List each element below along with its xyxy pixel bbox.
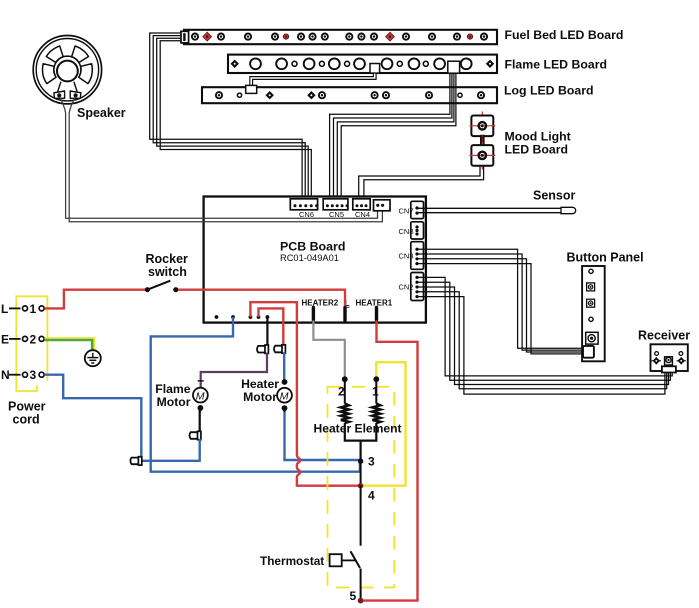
rocker switch	[145, 281, 179, 293]
flame board bundle connector	[448, 61, 460, 73]
svg-text:cord: cord	[13, 413, 40, 427]
Heater Motor label	[241, 377, 279, 404]
Mood Light LED board 2	[469, 142, 495, 170]
svg-text:CN7: CN7	[399, 206, 414, 215]
connector CN7	[411, 201, 424, 218]
svg-text:2: 2	[30, 332, 37, 346]
blue wire plug to heater motor and node 3	[284, 352, 360, 460]
svg-text:CN4: CN4	[355, 210, 370, 219]
svg-text:CN5: CN5	[329, 210, 344, 219]
svg-text:1: 1	[30, 302, 37, 316]
svg-text:Button Panel: Button Panel	[567, 251, 644, 265]
svg-text:E: E	[1, 332, 9, 346]
svg-text:Flame: Flame	[155, 382, 190, 396]
connector CN4	[353, 199, 370, 210]
svg-text:switch: switch	[148, 265, 187, 279]
heater element pin 2 node	[342, 376, 348, 382]
connector CN6	[290, 199, 318, 210]
connector CN2	[411, 273, 424, 301]
node 5	[358, 598, 364, 604]
svg-text:N: N	[1, 368, 10, 382]
Flame LED Board	[228, 55, 497, 73]
inline plug below flame motor	[190, 431, 201, 439]
svg-text:Heater: Heater	[241, 377, 279, 391]
HEATER1 pin	[375, 308, 378, 321]
black wire PCB pin to flame motor plug	[266, 317, 268, 346]
wires CN2 to receiver	[417, 277, 672, 394]
heater element pin 1 node	[373, 376, 379, 382]
svg-text:Flame LED Board: Flame LED Board	[505, 58, 608, 72]
PCB bottom pins	[215, 315, 270, 319]
live red wire rocker to PCB L pin	[178, 290, 345, 306]
heater motor M2	[277, 379, 292, 413]
PCB Board	[204, 197, 426, 323]
Sensor probe	[561, 207, 576, 213]
L pin	[343, 308, 346, 321]
svg-text:CN6: CN6	[299, 210, 314, 219]
red wire PCB pin to heater motor plug	[259, 308, 284, 345]
svg-text:M: M	[280, 390, 289, 402]
connector CN3	[411, 242, 424, 270]
svg-text:3: 3	[368, 455, 375, 469]
flame board small connector (to log board)	[370, 64, 380, 74]
svg-text:M: M	[196, 390, 205, 402]
red wire HEATER1 pin to node 5	[363, 321, 418, 601]
flame motor M1	[193, 381, 208, 413]
yellow wire node 4 to heater element pin 1	[363, 362, 406, 486]
red wire PCB pin to node 4 with wire hops	[250, 302, 358, 486]
svg-text:Thermostat: Thermostat	[260, 554, 324, 568]
Speaker	[33, 35, 101, 103]
Rocker switch label	[146, 252, 189, 279]
svg-text:PCB Board: PCB Board	[280, 240, 345, 254]
svg-text:CN2: CN2	[399, 283, 414, 292]
live red wire L to rocker switch	[44, 290, 147, 309]
gray wire HEATER2 pin to heater element pin 2	[313, 321, 344, 378]
svg-text:Mood Light: Mood Light	[505, 130, 571, 144]
inline plug on flame motor feed	[257, 345, 268, 353]
connector CN5	[323, 199, 348, 210]
svg-text:Motor: Motor	[157, 395, 191, 409]
blue wire PCB pin to node 3	[151, 317, 360, 472]
svg-text:Rocker: Rocker	[146, 252, 189, 266]
log board top connector	[246, 85, 257, 93]
power cord yellow outline	[16, 296, 47, 391]
heater element coils and wiring	[341, 379, 380, 459]
svg-text:L: L	[1, 302, 8, 316]
blue wire flame motor plug down to neutral	[198, 439, 200, 462]
Receiver	[651, 344, 688, 371]
terminal E	[9, 336, 44, 341]
Power cord label	[8, 400, 46, 427]
fuel bed board left connector	[181, 31, 189, 43]
svg-text:HEATER2: HEATER2	[302, 299, 339, 308]
svg-text:Speaker: Speaker	[77, 106, 126, 120]
purple wire plug to flame motor	[201, 353, 267, 388]
Flame Motor label	[155, 382, 190, 409]
thermostat	[330, 551, 361, 600]
ground symbol	[85, 350, 101, 366]
wires CN3 to button panel	[417, 249, 583, 354]
svg-text:LED Board: LED Board	[505, 143, 569, 157]
svg-text:Heater Element: Heater Element	[314, 422, 402, 436]
PCB board label	[280, 240, 345, 264]
heater assembly yellow dashed boundary	[328, 387, 395, 588]
speaker wires to PCB connector	[60, 97, 383, 222]
Sensor wires	[417, 208, 561, 212]
mood light connecting wire	[480, 135, 485, 146]
node 4	[358, 483, 363, 488]
svg-text:5: 5	[350, 589, 357, 603]
svg-text:Motor: Motor	[243, 390, 277, 404]
Fuel Bed LED Board	[184, 30, 497, 44]
svg-text:CN3: CN3	[399, 252, 414, 261]
svg-text:Fuel Bed LED Board: Fuel Bed LED Board	[505, 28, 624, 42]
svg-text:Receiver: Receiver	[638, 329, 690, 343]
svg-text:Power: Power	[8, 400, 46, 414]
wire bundle flame board to CN5	[330, 74, 456, 200]
Mood Light LED board 1	[469, 112, 495, 141]
svg-text:HEATER1: HEATER1	[356, 299, 393, 308]
wire node 3 to node 4	[360, 461, 362, 486]
svg-text:Sensor: Sensor	[533, 189, 576, 203]
Button Panel	[582, 266, 605, 361]
connector CN8	[411, 222, 424, 239]
svg-text:4: 4	[368, 489, 375, 503]
button panel wire connector	[583, 346, 594, 358]
terminal N	[9, 372, 44, 377]
neutral blue wire N to flame motor return	[44, 375, 199, 461]
wires mood light boards to CN4	[359, 166, 484, 199]
terminal L	[9, 306, 44, 311]
svg-text:Log LED Board: Log LED Board	[504, 84, 594, 98]
HEATER2 pin	[312, 308, 315, 321]
node 3	[358, 459, 363, 464]
svg-text:CN8: CN8	[399, 227, 414, 236]
svg-text:RC01-049A01: RC01-049A01	[280, 253, 339, 263]
wire flame board connector to log board connector	[251, 74, 375, 86]
earth wire E to ground	[44, 338, 94, 350]
svg-text:3: 3	[30, 368, 37, 382]
Log LED Board	[202, 87, 497, 103]
inline plug on heater motor feed	[274, 345, 285, 353]
wire bundle fuel board to CN6	[150, 33, 312, 199]
receiver wire connector	[662, 366, 676, 372]
black wire flame motor to plug	[199, 409, 201, 432]
wire node 4 to thermostat	[360, 486, 362, 546]
mood light label	[505, 130, 571, 157]
speaker 2-pin connector	[374, 200, 391, 211]
inline plug on neutral wire	[130, 457, 141, 465]
